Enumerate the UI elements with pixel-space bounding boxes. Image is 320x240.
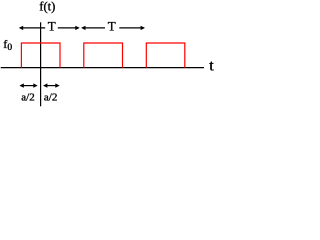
svg-text:t: t: [209, 58, 214, 75]
svg-text:a/2: a/2: [44, 92, 57, 104]
svg-text:T: T: [48, 18, 56, 33]
svg-text:f(t): f(t): [39, 0, 55, 14]
svg-text:a/2: a/2: [21, 92, 34, 104]
svg-text:T: T: [108, 18, 116, 33]
svg-text:0: 0: [7, 43, 12, 53]
